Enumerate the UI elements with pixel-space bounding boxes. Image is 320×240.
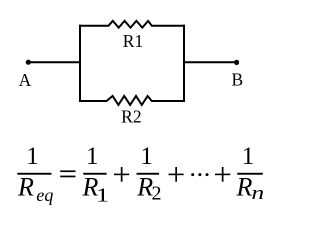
svg-text:2: 2 — [152, 183, 162, 205]
svg-text:1: 1 — [242, 143, 255, 170]
svg-text:n: n — [251, 182, 264, 203]
svg-text:1: 1 — [86, 143, 99, 170]
svg-text:R2: R2 — [121, 107, 141, 127]
svg-text:eq: eq — [36, 185, 53, 205]
svg-text:R: R — [17, 173, 34, 202]
svg-text:1: 1 — [26, 143, 39, 170]
svg-text:R: R — [236, 173, 253, 202]
svg-text:A: A — [19, 70, 32, 90]
svg-text:1: 1 — [140, 143, 153, 170]
svg-text:1: 1 — [96, 185, 109, 207]
svg-text:B: B — [231, 69, 243, 89]
svg-text:R1: R1 — [123, 31, 143, 51]
